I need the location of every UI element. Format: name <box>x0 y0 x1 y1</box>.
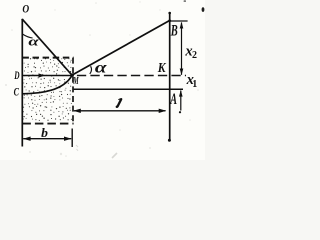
left vertical line (through O, D, C) <box>21 19 23 147</box>
svg-text:B: B <box>170 22 178 39</box>
b right tick <box>71 129 73 148</box>
svg-text:2: 2 <box>192 50 197 61</box>
svg-text:M: M <box>73 76 80 87</box>
svg-text:D: D <box>14 70 20 82</box>
b dimension double arrow <box>23 138 71 140</box>
horizontal line to A (screen level) <box>74 88 183 90</box>
svg-text:b: b <box>41 126 48 140</box>
svg-text:K: K <box>157 61 167 76</box>
ray direction arrowhead on DM <box>39 73 46 77</box>
x1 arrowhead pointing up at A line <box>179 90 183 97</box>
curved ray C to M <box>23 76 72 94</box>
glass slab stipple fill <box>22 58 72 121</box>
x1 arrow end blob <box>179 111 181 113</box>
x1 outside arrow below A <box>180 91 182 111</box>
svg-text:1: 1 <box>192 79 197 90</box>
angle arc at O <box>22 34 32 38</box>
faint scan speckle <box>5 1 199 157</box>
scan speck top right small <box>184 0 186 1</box>
angle arc at M <box>90 66 92 74</box>
slab bottom dashed edge <box>22 123 73 125</box>
blob at bottom of screen line <box>168 139 171 142</box>
svg-text:O: O <box>22 2 29 16</box>
line D to M with ray arrow <box>22 75 72 77</box>
ray M to B <box>72 20 170 75</box>
l dimension double arrow <box>74 110 166 112</box>
tick at B <box>170 20 188 22</box>
slab top dashed edge <box>22 57 73 59</box>
ray O to M <box>22 19 72 75</box>
ink blob at junction B <box>168 19 171 22</box>
l right arrowhead <box>159 109 167 113</box>
scan blob right edge <box>202 7 205 12</box>
faint scan diagonal bottom center <box>112 153 117 158</box>
svg-text:α: α <box>28 34 39 49</box>
ink blob at apex O <box>21 19 23 21</box>
x2 top arrowhead <box>180 22 184 29</box>
dashed line M to K extended <box>72 75 186 77</box>
blob at top of screen line <box>168 12 171 15</box>
b right arrowhead <box>64 137 72 141</box>
right vertical line (screen B-A) <box>169 12 171 141</box>
faint scan mark bottom left of center <box>76 145 78 151</box>
svg-text:A: A <box>170 91 178 108</box>
slab right dashed edge <box>72 58 74 124</box>
l label <box>118 99 122 106</box>
x2 bottom arrowhead <box>180 69 184 76</box>
x2 dimension line <box>181 23 183 75</box>
svg-text:α: α <box>95 59 107 76</box>
b left arrowhead <box>23 137 31 141</box>
l left arrowhead <box>73 109 81 113</box>
ink blob at junction M <box>71 74 74 77</box>
svg-text:C: C <box>14 87 20 99</box>
